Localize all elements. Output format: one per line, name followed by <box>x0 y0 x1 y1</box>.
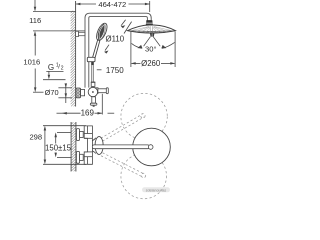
wall (side view) <box>75 1 77 107</box>
temperature knob (circle) <box>88 87 97 96</box>
spout (down) <box>90 97 97 107</box>
hand shower handle <box>92 40 100 60</box>
head nub <box>150 33 155 36</box>
shut-off handle <box>98 88 108 94</box>
wall (front view) <box>71 122 76 172</box>
ball joint <box>146 20 154 26</box>
30 degree indicator <box>132 37 175 49</box>
svg-text:169: 169 <box>81 108 95 117</box>
spout bell <box>92 137 103 155</box>
thermostat escutcheon (side view) <box>76 88 81 98</box>
svg-text:sdelanounas: sdelanounas <box>146 188 167 192</box>
rail wall bracket <box>76 31 85 36</box>
shower holder on rail <box>87 57 95 65</box>
faucet front: bottom escutcheon <box>76 151 83 163</box>
spout bar <box>92 145 153 150</box>
svg-text:150±15: 150±15 <box>45 144 72 153</box>
dimension 298 <box>43 126 86 165</box>
watermark <box>142 187 170 192</box>
thermostat connector <box>81 90 85 96</box>
head shower dome <box>127 25 175 33</box>
D110 leader <box>121 20 132 34</box>
svg-text:Ø110: Ø110 <box>106 34 125 43</box>
hand shower hose <box>92 65 94 82</box>
dashed circle top <box>121 93 167 139</box>
svg-text:2: 2 <box>61 66 64 72</box>
svg-text:Ø70: Ø70 <box>45 88 59 97</box>
svg-text:1016: 1016 <box>23 58 40 67</box>
shower rail pipe <box>85 13 151 87</box>
dimension D260 <box>131 32 175 68</box>
svg-text:G: G <box>48 63 54 72</box>
wall hatching (side view) <box>71 11 76 107</box>
thermostat body <box>95 88 99 94</box>
svg-text:464-472: 464-472 <box>98 0 126 9</box>
solid circle (spray head front) <box>133 128 171 166</box>
dimension 150+-15 <box>54 132 71 157</box>
dashed arm up <box>97 114 145 144</box>
hand shower head <box>94 22 109 42</box>
svg-text:Ø260: Ø260 <box>141 59 161 68</box>
svg-text:298: 298 <box>29 133 42 142</box>
svg-text:1750: 1750 <box>106 66 124 75</box>
label 1750 <box>97 45 109 70</box>
svg-text:116: 116 <box>29 16 41 25</box>
svg-text:30°: 30° <box>145 44 156 53</box>
dashed arm down <box>97 151 146 178</box>
dimension 1016 <box>33 35 44 93</box>
dimension 464-472 <box>76 1 150 12</box>
dimension 116 <box>33 0 85 36</box>
dashed circle bottom <box>121 153 167 199</box>
faucet front: body column <box>84 126 92 164</box>
thermostat top stub <box>91 82 95 86</box>
dimension 169 <box>57 94 115 115</box>
faucet front: top escutcheon <box>76 129 83 141</box>
wall hatching (front view) <box>71 122 76 171</box>
